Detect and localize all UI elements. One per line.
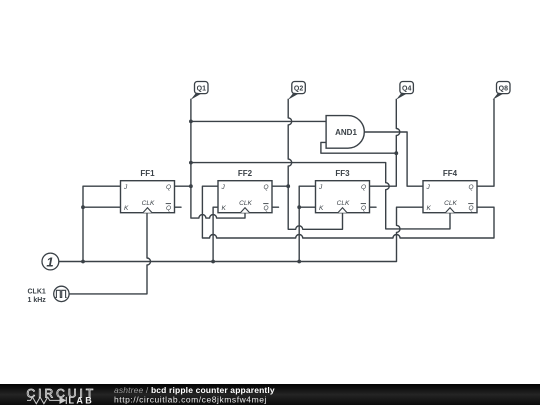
logo resistor squiggle and diode	[27, 397, 59, 404]
wire node 1 rail from source to FF4 K, turning up at x=396.5 hopping the Q1-CLK4 line	[59, 207, 423, 261]
junction Q1/FF1-Q	[189, 184, 193, 188]
flip-flop FF2	[218, 169, 272, 213]
svg-text:1: 1	[46, 254, 53, 269]
svg-text:Q4: Q4	[402, 85, 411, 92]
svg-text:FF1: FF1	[140, 169, 155, 178]
wire FF2 Q output lead to Q2 node	[272, 185, 288, 187]
wire Q4 vertical from tag, hop over AND1 output, down to FF3 Q output	[370, 99, 400, 186]
wire Q1 branch to AND1 input A at y=121.4	[191, 120, 326, 122]
FF4 clock edge-trigger triangle	[445, 208, 454, 213]
svg-text:ashtree / bcd ripple counter a: ashtree / bcd ripple counter apparently	[114, 385, 275, 395]
node Q4 flag tag	[396, 82, 413, 100]
svg-text:Q: Q	[166, 205, 171, 212]
svg-text:CLK1: CLK1	[28, 289, 46, 296]
wire FF1 Qbar stub	[175, 206, 182, 208]
footer bar	[0, 384, 540, 405]
AND gate AND1	[326, 116, 364, 149]
svg-text:AND1: AND1	[335, 128, 357, 137]
svg-text:1 kHz: 1 kHz	[28, 297, 47, 304]
flip-flop FF4	[423, 169, 477, 213]
junction Q4/AND1-B	[394, 151, 398, 155]
wire node 1 branch to FF2 K	[213, 207, 218, 261]
node Q2 flag tag	[288, 82, 305, 100]
flip-flop FF1	[121, 169, 175, 213]
junction Q2/FF2-Q	[286, 184, 290, 188]
svg-text:FF3: FF3	[335, 169, 350, 178]
svg-text:Q: Q	[468, 184, 473, 191]
node Q1 flag tag	[191, 82, 208, 100]
svg-text:FF2: FF2	[238, 169, 253, 178]
FF3 clock edge-trigger triangle	[338, 208, 347, 213]
svg-text:Q8: Q8	[499, 85, 508, 92]
svg-text:CLK: CLK	[337, 200, 350, 207]
svg-text:CLK: CLK	[444, 200, 457, 207]
svg-text:Q: Q	[361, 205, 366, 212]
FF2 clock edge-trigger triangle	[240, 208, 249, 213]
wire AND1 input B loop under gate to Q4 vertical	[321, 142, 396, 153]
junction Q1/CLK4 line	[189, 161, 193, 165]
svg-text:CLK: CLK	[239, 200, 252, 207]
wire FF2 Qbar stub	[272, 206, 279, 208]
svg-text:K: K	[222, 205, 227, 212]
wire FF1 Q output lead to Q1 node	[175, 185, 191, 187]
wire FF4 Qbar to J2: right, down, long run left at y=238 hopping K4, J3K3 and K2 verticals, up to FF2 J	[202, 186, 494, 238]
svg-text:LAB: LAB	[69, 396, 95, 405]
junction Q1/AND1-A	[189, 120, 193, 124]
wire Q1 branch to FF4 clock: right, down at x=385.7 hopping FF3 Q line, right at y=228.9, up into CLK4	[191, 163, 450, 229]
junction node1/FF3-K	[297, 205, 301, 209]
flip-flop FF1 body box	[121, 181, 175, 213]
wire FF1 K lead	[83, 206, 121, 208]
wire Q2 vertical from tag, hops over y=121.4 and y=162.6 lines, down then right into CLK3 hopping J3K3 vertical	[288, 99, 342, 229]
svg-text:CLK: CLK	[142, 200, 155, 207]
node 1 logic-high node symbol	[42, 253, 59, 270]
svg-text:Q2: Q2	[294, 85, 303, 92]
svg-text:K: K	[124, 205, 129, 212]
svg-text:Q: Q	[361, 184, 366, 191]
junction node1 rail / FF3 branch	[297, 260, 301, 264]
svg-text:Q1: Q1	[197, 85, 206, 92]
junction node1/FF1-K	[81, 205, 85, 209]
FF1 clock edge-trigger triangle	[143, 208, 152, 213]
svg-text:K: K	[319, 205, 324, 212]
flip-flop FF3	[316, 169, 370, 213]
wire CLK1 source to FF1 clock, hops over node 1 rail	[69, 213, 150, 294]
junction node1 rail / FF1 branch	[81, 260, 85, 264]
wire node 1 branch to FF1 J and K	[83, 186, 121, 261]
svg-text:Q: Q	[468, 205, 473, 212]
flip-flop FF2 body box	[218, 181, 272, 213]
node Q8 flag tag	[493, 82, 510, 100]
junction node1 rail / FF2-K branch	[211, 260, 215, 264]
clock source CLK1	[54, 286, 69, 301]
wire Q1 vertical from tag down to FF2 clock run, hops over J2 and K2 verticals	[191, 99, 245, 218]
svg-text:K: K	[427, 205, 432, 212]
flip-flop FF3 body box	[316, 181, 370, 213]
wire FF3 Qbar stub	[370, 206, 377, 208]
svg-text:Q: Q	[263, 184, 268, 191]
wire node 1 branch to FF3 J and K	[299, 186, 315, 261]
wire FF3 K lead	[299, 206, 315, 208]
wire Q8 vertical from tag down to FF4 Q output	[477, 99, 494, 186]
svg-text:Q: Q	[166, 184, 171, 191]
svg-text:FF4: FF4	[443, 169, 458, 178]
svg-text:Q: Q	[263, 205, 268, 212]
flip-flop FF4 body box	[423, 181, 477, 213]
svg-text:http://circuitlab.com/ce8jkmsf: http://circuitlab.com/ce8jkmsfw4mej	[114, 394, 267, 404]
wire AND1 output to FF4 J	[364, 132, 423, 186]
